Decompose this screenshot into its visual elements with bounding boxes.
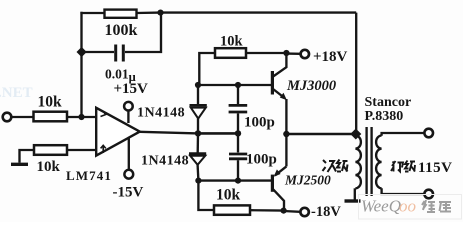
label MJ3000 bbox=[286, 78, 336, 94]
svg-text:+18V: +18V bbox=[313, 49, 348, 65]
svg-text:10k: 10k bbox=[216, 187, 241, 204]
label 100p (C2) bbox=[244, 115, 275, 131]
label 1N4148 (D1) bbox=[137, 106, 185, 121]
svg-text:MJ2500: MJ2500 bbox=[284, 173, 331, 188]
capacitor C1 0.01u plates bbox=[116, 45, 124, 62]
junction feedback node bbox=[78, 114, 84, 120]
resistor R3 100k bbox=[105, 10, 137, 18]
junction top rail bbox=[157, 10, 163, 16]
wire to +18V terminal bbox=[286, 52, 300, 55]
wire R2 to op-amp bbox=[67, 149, 96, 151]
terminal secondary bottom circle bbox=[424, 190, 433, 199]
junction output node bbox=[283, 131, 289, 137]
svg-text:WeeQ: WeeQ bbox=[361, 197, 401, 216]
svg-text:LM741: LM741 bbox=[66, 168, 112, 183]
label -15V bbox=[113, 185, 144, 201]
svg-text:Stancor: Stancor bbox=[365, 95, 412, 110]
op-amp V+ pin stub and circle bbox=[124, 102, 133, 123]
label LM741 bbox=[66, 168, 112, 183]
label 1N4148 (D2) bbox=[141, 154, 189, 169]
wire bottom column to R5 bbox=[198, 181, 214, 210]
resistor R1 10k bbox=[34, 112, 68, 122]
label 10k (R4) bbox=[220, 34, 244, 50]
junction diode column lower bbox=[195, 178, 201, 184]
resistor R5 10k bottom bbox=[214, 205, 250, 214]
label +15V bbox=[114, 81, 149, 97]
wire cap row left bbox=[82, 51, 114, 53]
non-inverting input mark bbox=[101, 145, 106, 153]
watermark wei-ku chinese bbox=[422, 200, 451, 212]
wire right rail down to transformer bbox=[355, 13, 357, 134]
wire R5 to -18V junction bbox=[250, 209, 284, 212]
junction cap row bbox=[77, 47, 87, 57]
transistor Q2 MJ2500 bbox=[272, 134, 286, 211]
capacitor C3 100p lower bbox=[229, 133, 247, 180]
label 115V bbox=[418, 160, 453, 176]
wire base row lower bbox=[198, 179, 271, 181]
terminal secondary top circle bbox=[424, 129, 433, 138]
label 10k (R5) bbox=[216, 187, 241, 204]
wire corner to 100k bbox=[80, 12, 104, 14]
label 0.01u bbox=[105, 67, 136, 85]
junction mid diode bbox=[195, 130, 201, 136]
wire 100k to top rail junction bbox=[137, 11, 161, 14]
op-amp U1 LM741 triangle bbox=[96, 108, 140, 156]
diode D2 1N4148 bbox=[189, 133, 206, 180]
wire left vertical feedback bbox=[80, 12, 82, 117]
input terminal circle bbox=[3, 113, 12, 122]
junction cap column lower bbox=[235, 178, 241, 184]
op-amp V- pin stub and circle bbox=[124, 138, 133, 179]
junction transformer top bbox=[350, 128, 361, 139]
resistor R4 10k top bbox=[215, 48, 246, 58]
label 100p (C3) bbox=[246, 152, 277, 168]
capacitor C2 100p upper bbox=[229, 85, 248, 133]
ground (non-inverting input) bbox=[11, 150, 34, 164]
svg-text:+15V: +15V bbox=[114, 81, 149, 97]
junction diode column upper bbox=[195, 82, 201, 88]
wire R4 right to +18V junction bbox=[246, 52, 286, 54]
terminal -18V circle bbox=[300, 208, 308, 216]
wire cap row right bbox=[125, 13, 161, 52]
svg-text:1N4148: 1N4148 bbox=[137, 106, 185, 121]
label 100k bbox=[105, 22, 138, 39]
ground transformer bbox=[345, 199, 361, 202]
wire R1 to op-amp input with feedback junction bbox=[67, 116, 96, 118]
wire secondary bottom lead bbox=[382, 188, 425, 194]
svg-text:P.8380: P.8380 bbox=[365, 109, 404, 124]
svg-text:10k: 10k bbox=[38, 94, 63, 111]
svg-text:100k: 100k bbox=[105, 22, 138, 39]
label 10k (R1) bbox=[38, 94, 63, 111]
svg-text:1N4148: 1N4148 bbox=[141, 154, 189, 169]
label 10k (R2) bbox=[37, 159, 61, 175]
transformer core bbox=[367, 127, 372, 196]
svg-text:115V: 115V bbox=[418, 160, 453, 176]
svg-text:-18V: -18V bbox=[311, 204, 341, 220]
junction cap column upper bbox=[235, 82, 241, 88]
junction mid cap bbox=[235, 130, 241, 136]
watermark box bbox=[359, 195, 462, 220]
inverting input mark bbox=[101, 113, 107, 116]
wire to -18V terminal bbox=[284, 210, 300, 213]
wire op-amp output bbox=[140, 132, 198, 134]
wire drive column top corner bbox=[199, 53, 215, 85]
label MJ2500 bbox=[284, 173, 331, 188]
junction +18V bbox=[283, 50, 289, 56]
svg-text:10k: 10k bbox=[37, 159, 61, 175]
wire top rail bbox=[161, 11, 357, 13]
transformer T1 secondary winding (right) bbox=[376, 136, 382, 189]
wire mid row bbox=[198, 132, 238, 135]
svg-text:MJ3000: MJ3000 bbox=[286, 78, 336, 94]
transistor Q1 MJ3000 bbox=[272, 53, 287, 134]
label chu-ji 115V (primary chinese) bbox=[391, 161, 415, 172]
watermark WeeQoo bbox=[361, 197, 416, 216]
terminal +18V circle bbox=[301, 50, 309, 58]
wire input to R1 bbox=[11, 116, 34, 118]
svg-text:100p: 100p bbox=[244, 115, 275, 131]
diode D1 1N4148 bbox=[190, 85, 207, 133]
label Stancor bbox=[365, 95, 412, 110]
wire winding to ground bbox=[354, 188, 356, 200]
label -18V bbox=[311, 204, 341, 220]
wire base row upper bbox=[198, 84, 271, 86]
label +18V bbox=[313, 49, 348, 65]
label ci-ji (secondary chinese) bbox=[323, 160, 348, 173]
wire secondary top lead bbox=[382, 133, 425, 136]
svg-text:-15V: -15V bbox=[113, 185, 144, 201]
svg-text:100p: 100p bbox=[246, 152, 277, 168]
label P.8380 bbox=[365, 109, 404, 124]
svg-text:oo: oo bbox=[399, 197, 416, 216]
svg-text:.NET: .NET bbox=[0, 85, 33, 101]
resistor R2 10k bbox=[34, 145, 67, 155]
junction -18V bbox=[281, 208, 287, 214]
svg-text:10k: 10k bbox=[220, 34, 244, 50]
transformer T1 primary winding (left) bbox=[355, 136, 361, 189]
watermark NET top-left bbox=[0, 85, 33, 101]
wire output row to transformer bbox=[286, 133, 355, 136]
